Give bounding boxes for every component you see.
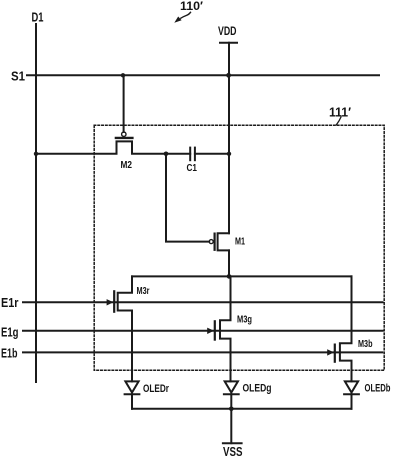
junction dot M2 gate on S1 — [121, 73, 125, 77]
label 110' with leader arrow — [174, 0, 203, 23]
transistor M2 (PMOS, hump up) — [36, 132, 166, 154]
svg-text:M1: M1 — [235, 237, 245, 248]
power VDD symbol — [218, 24, 237, 43]
svg-text:E1g: E1g — [1, 325, 19, 340]
transistor M3r (hump left) — [107, 276, 132, 381]
wire E1g (horizontal) — [23, 330, 383, 332]
wire VDD column down to M1 source — [228, 43, 230, 234]
svg-text:S1: S1 — [11, 69, 25, 84]
diode OLEDb — [344, 381, 359, 408]
label 111' with leader — [329, 105, 351, 125]
transistor M3g (hump left) — [207, 276, 230, 381]
svg-text:VDD: VDD — [218, 24, 237, 38]
diode OLEDr — [125, 381, 140, 408]
svg-text:C1: C1 — [187, 162, 198, 174]
wire M2 gate line from S1 — [123, 75, 125, 132]
junction dot D1 x M2 source — [34, 152, 38, 156]
wire S1 scan line (horizontal) — [27, 74, 379, 76]
wire cathode rail — [132, 408, 352, 410]
capacitor C1 — [166, 148, 229, 161]
svg-text:M3g: M3g — [237, 315, 252, 326]
wire M1 gate from storage node — [166, 154, 209, 242]
svg-text:E1b: E1b — [1, 346, 18, 361]
wire common rail — [132, 275, 352, 277]
junction dot M1 drain on rail — [227, 274, 232, 279]
transistor M1 (PMOS, hump right) — [209, 233, 229, 250]
junction dot S1 x VDD column — [226, 73, 231, 78]
svg-text:M3r: M3r — [137, 286, 150, 297]
box 111' dashed pixel boundary — [94, 125, 384, 370]
diode OLEDg — [224, 381, 239, 408]
svg-text:M2: M2 — [121, 159, 133, 171]
power VSS symbol — [223, 409, 243, 457]
junction dot C1 x VDD column — [227, 152, 231, 156]
svg-text:OLEDr: OLEDr — [143, 383, 170, 395]
svg-text:OLEDg: OLEDg — [243, 383, 272, 395]
svg-text:110′: 110′ — [180, 0, 203, 13]
junction dot VSS stub on rail — [229, 407, 234, 412]
svg-text:M3b: M3b — [358, 339, 373, 350]
svg-text:111′: 111′ — [329, 105, 351, 120]
wire M1 drain to rail — [228, 250, 230, 276]
wire D1 data line (vertical) — [35, 24, 37, 382]
svg-text:D1: D1 — [32, 10, 44, 25]
svg-text:VSS: VSS — [223, 445, 243, 457]
junction dot M2 drain node — [164, 152, 169, 157]
transistor M3b (hump left) — [327, 276, 351, 381]
svg-text:E1r: E1r — [1, 295, 19, 310]
svg-text:OLEDb: OLEDb — [365, 383, 391, 395]
wire E1r (horizontal) — [23, 301, 383, 303]
wire E1b (horizontal) — [23, 351, 382, 353]
